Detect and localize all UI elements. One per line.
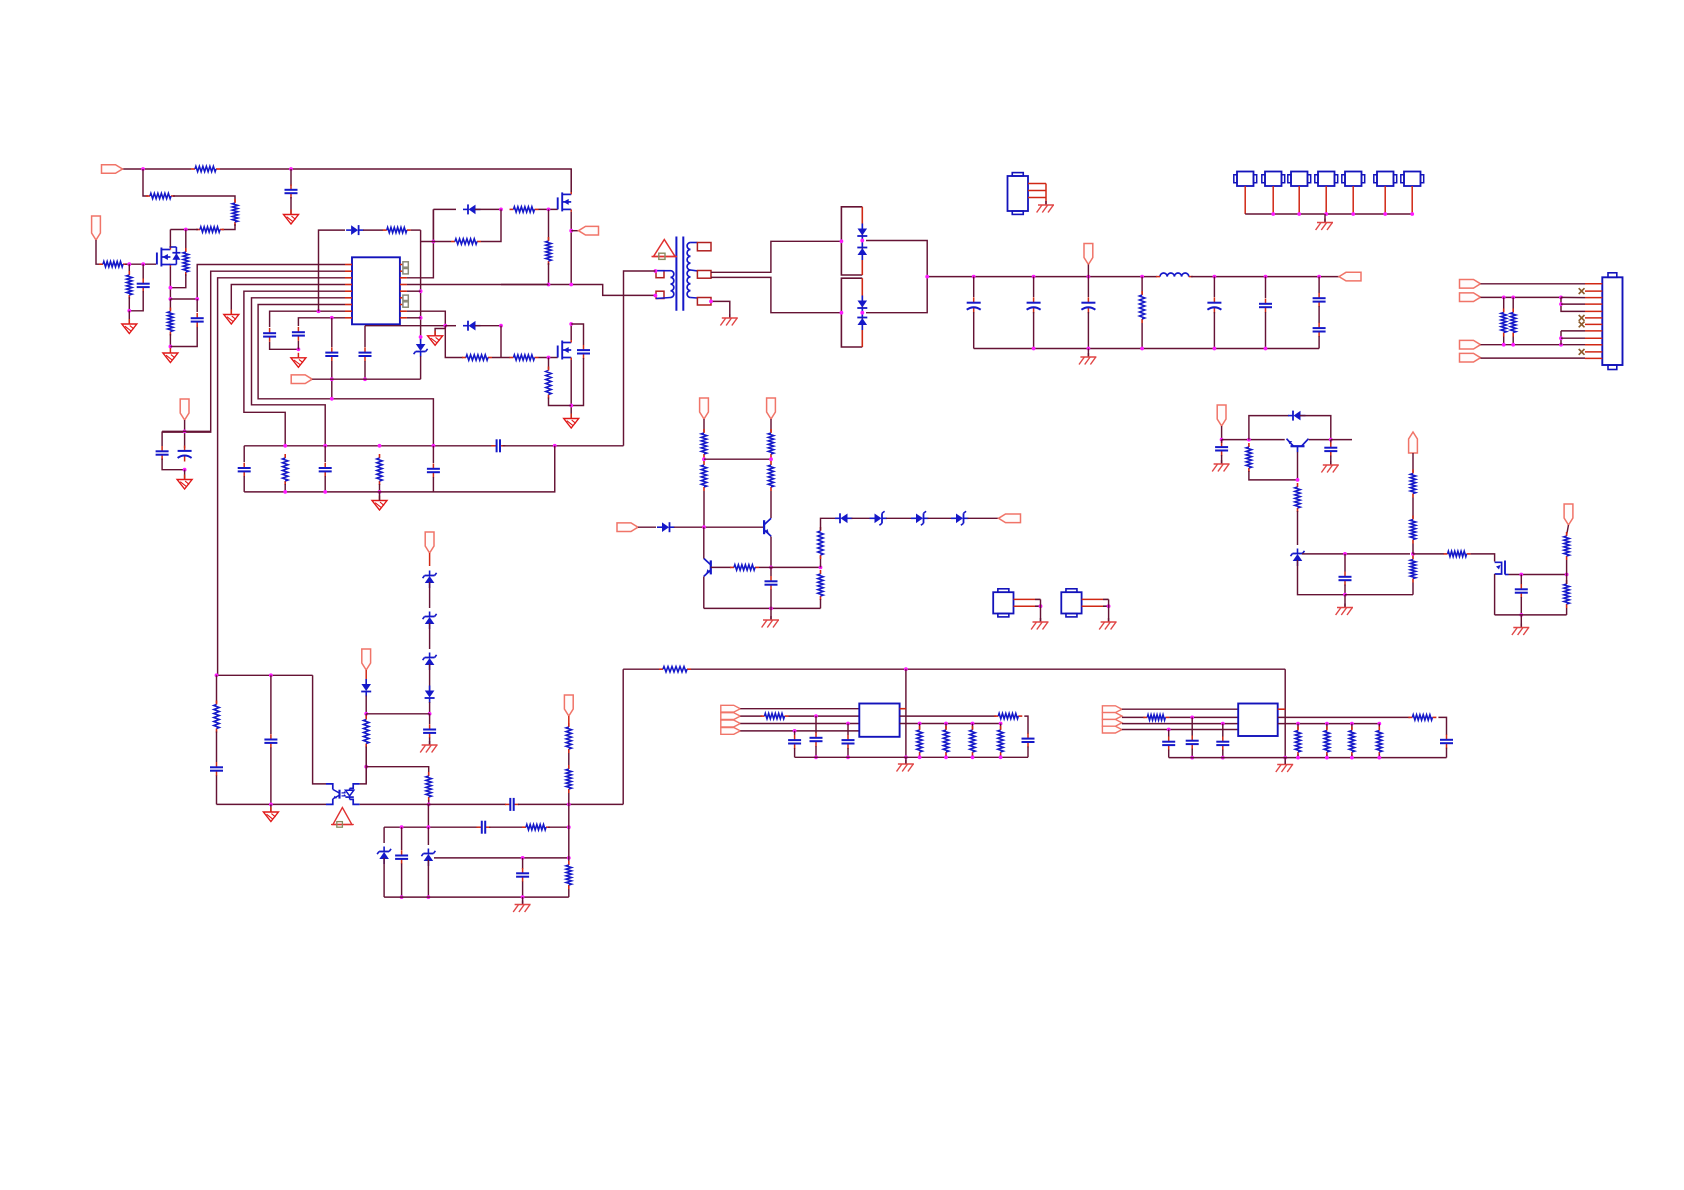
lead P14 xyxy=(568,716,570,726)
wire C16 bot xyxy=(1033,312,1035,349)
wire D2 to J501 xyxy=(475,208,501,210)
inductor T1 primary winding xyxy=(671,271,674,278)
wire R25 to D row xyxy=(821,518,837,530)
pin 3 stub U1 left xyxy=(345,277,352,279)
wire R55 bot xyxy=(1512,337,1514,345)
pin CN7 row6 xyxy=(1585,317,1602,319)
wire R43 down xyxy=(1326,755,1328,758)
wire P4 rail xyxy=(312,378,420,380)
wire D2 row xyxy=(433,208,456,210)
wire U4 row1 xyxy=(1122,708,1238,710)
node junction B-C13 xyxy=(323,490,327,494)
wire D10-D11 xyxy=(928,517,954,519)
wire U3 row2a xyxy=(740,715,762,717)
diode D9 zener xyxy=(870,511,888,525)
wire C16 top xyxy=(1033,277,1035,297)
resistor R29 xyxy=(214,701,219,733)
wire C2 bot xyxy=(129,291,143,311)
chassis ground CG15 xyxy=(420,741,437,753)
capacitor C38 xyxy=(1215,442,1228,456)
node junction D2-R12 xyxy=(499,208,503,212)
node junction row2-C35 xyxy=(1190,716,1194,720)
node junction connbus 6 xyxy=(1410,212,1414,216)
wire R18 top xyxy=(1141,277,1143,294)
wire stair2 xyxy=(1561,330,1585,332)
wire C5 col bot xyxy=(364,361,366,379)
wire D11 to P11 xyxy=(968,517,999,519)
resistor R32 xyxy=(566,765,571,793)
node junction r10-R54 xyxy=(1502,343,1506,347)
node junction m2block xyxy=(432,240,436,244)
diode D5a xyxy=(857,224,867,242)
node junction C31-bot xyxy=(814,755,818,759)
node junction gate M2 xyxy=(547,208,551,212)
wire G10 stub xyxy=(270,804,272,811)
node junction R9-rail xyxy=(547,283,551,287)
capacitor C15 polar xyxy=(967,297,981,313)
wire R45 feed xyxy=(1378,724,1380,730)
node junction Q6 base-R47 xyxy=(1296,478,1300,482)
resistor R34 xyxy=(761,713,789,718)
resistor R10 xyxy=(546,367,551,399)
node junction gnd5 xyxy=(297,347,301,351)
wire pin3 rail xyxy=(218,674,313,676)
resistor R40 xyxy=(1143,715,1169,720)
pin U4 right1 xyxy=(1278,708,1286,710)
wire R29 to C24 xyxy=(216,732,218,763)
chassis ground CG4 xyxy=(1316,219,1333,231)
node junction pin3rail-cap xyxy=(269,673,273,677)
node junction prim top xyxy=(654,269,658,273)
diode D10 zener xyxy=(911,511,929,525)
diode D16 xyxy=(361,679,371,697)
wire vcc column xyxy=(420,230,422,340)
connector J4 xyxy=(1315,172,1338,187)
pin CN7 row2 xyxy=(1585,290,1602,292)
wire U3 row1 xyxy=(740,708,859,710)
capacitor C20 xyxy=(1313,293,1326,307)
node junction C2 xyxy=(141,262,145,266)
node junction A-R16 xyxy=(283,444,287,448)
node junction A-C13 xyxy=(323,444,327,448)
node junction prim bot xyxy=(654,294,658,298)
wire cgnd stub xyxy=(1087,349,1089,357)
node junction R8 xyxy=(127,262,131,266)
wire R24 bot xyxy=(820,599,822,608)
wire Q4e row right xyxy=(771,566,821,568)
resistor R13 xyxy=(451,239,481,244)
wire U1 pin9R xyxy=(407,317,421,319)
connector P16 xyxy=(1409,432,1418,453)
wire D14-D15 xyxy=(429,664,431,691)
node junction R20-R22 xyxy=(769,457,773,461)
resistor R1 xyxy=(191,166,220,171)
wire G9 stub xyxy=(379,492,381,501)
connector P6 xyxy=(1084,244,1093,265)
node junction rail-R2 xyxy=(141,167,145,171)
wire C37 down xyxy=(1446,748,1448,758)
wire Q2 drain xyxy=(570,169,572,192)
wire R32 down xyxy=(568,793,570,804)
node junction row3-C36 xyxy=(1221,722,1225,726)
diode D14 zener xyxy=(423,653,437,671)
resistor R22 xyxy=(768,461,773,491)
wire M3 rail top xyxy=(365,325,445,327)
resistor R52 xyxy=(1564,532,1569,560)
wire fb bottom rail xyxy=(704,607,821,609)
diode D3 zener xyxy=(414,339,428,357)
node junction 897-C29 xyxy=(521,895,525,899)
ground G3 xyxy=(163,348,178,363)
resistor R15 xyxy=(510,355,539,360)
resistor R4 xyxy=(196,227,224,232)
transistor Q1 mosfet xyxy=(157,247,181,267)
node junction Q3 src rail xyxy=(569,404,573,408)
ic U2 optocoupler xyxy=(326,784,360,805)
wire R54 col xyxy=(1503,297,1505,311)
wire m3 R row left xyxy=(445,329,463,358)
wire U1 pin4 xyxy=(231,285,345,315)
diode D1 vcc xyxy=(346,225,364,235)
wire CN5 gnd col xyxy=(1040,599,1042,621)
node junction B-R16 xyxy=(283,490,287,494)
wire R50 down xyxy=(1412,583,1414,595)
wire row12 xyxy=(1481,357,1586,359)
node junction Q2src-rail xyxy=(569,283,573,287)
node junction DP1 in xyxy=(840,239,844,243)
resistor R39 xyxy=(998,726,1003,756)
wire R44 feed xyxy=(1351,724,1353,730)
wire CG6 stub xyxy=(522,897,524,904)
node junction 554-Rcol xyxy=(1411,552,1415,556)
resistor R28 xyxy=(426,772,431,801)
node junction bus g xyxy=(1317,275,1321,279)
wire U1 pin8 xyxy=(270,311,345,327)
connector P9 xyxy=(767,398,776,419)
resistor R41 xyxy=(1408,715,1436,720)
capacitor C39 xyxy=(1324,442,1337,456)
node junction C4-term rail xyxy=(330,377,334,381)
resistor R27 xyxy=(364,716,369,748)
pin J4 wire xyxy=(1325,186,1327,214)
wire DP2 out xyxy=(866,277,927,313)
connector P1 input xyxy=(102,165,123,174)
capacitor C14 xyxy=(427,464,440,478)
wire P6 stub xyxy=(1087,265,1089,277)
wire U3 row2R xyxy=(900,715,996,717)
wire C40 down xyxy=(1344,585,1346,595)
wire U1 pin2 xyxy=(162,271,345,432)
wire cap3 bottom rail xyxy=(170,325,197,347)
node junction R45 top xyxy=(1377,722,1381,726)
capacitor C18 polar xyxy=(1207,297,1221,313)
connector P15 xyxy=(1217,405,1226,426)
connector J5 xyxy=(1342,172,1365,187)
wire R8 bot xyxy=(128,297,130,311)
wire C22 top xyxy=(770,567,772,576)
wire R17 bot xyxy=(379,484,381,492)
capacitor C34 xyxy=(1162,736,1175,750)
wire C36 col xyxy=(1222,724,1224,737)
wire z1 col xyxy=(383,827,385,843)
wire C30 col xyxy=(794,731,796,735)
wire U1 pin9 xyxy=(298,318,345,326)
pin 12 stub U1 right xyxy=(400,277,407,279)
wire U4 row2b xyxy=(1169,716,1238,718)
wire Q5 emitter xyxy=(703,577,705,609)
wire C36 down xyxy=(1222,750,1224,758)
wire rail554 to R51 xyxy=(1413,553,1444,555)
connector CN7 body xyxy=(1602,277,1622,365)
node junction gnd rail xyxy=(127,309,131,313)
resistor R18 xyxy=(1139,291,1144,323)
node junction R43 top xyxy=(1325,722,1329,726)
wire C17 bot xyxy=(1087,312,1089,349)
wire Q2 source xyxy=(570,212,572,285)
wire to G2 xyxy=(128,311,130,324)
node junction busgnd b2 xyxy=(1032,347,1036,351)
wire U4 row3 xyxy=(1122,723,1238,725)
node junction row4-C34 xyxy=(1167,728,1171,732)
node junction D4-x501 xyxy=(499,324,503,328)
wire R7 top xyxy=(169,299,171,311)
resistor R45 xyxy=(1377,727,1382,757)
chassis ground CG3 xyxy=(1037,201,1054,213)
node junction vcc-5R xyxy=(419,289,423,293)
wire Q1 source xyxy=(169,267,171,299)
node junction A-R17 xyxy=(378,444,382,448)
node junction Q6 base col xyxy=(1247,438,1251,442)
connector P17 xyxy=(1564,504,1573,525)
wire bus bottom rail xyxy=(974,348,1319,350)
wire R20 bot xyxy=(770,458,772,459)
wire rail284 left xyxy=(501,284,549,286)
wire C12 bot xyxy=(243,476,245,492)
resistor R43 xyxy=(1324,727,1329,757)
wire D1 to R11 xyxy=(363,229,383,231)
chassis ground CG12 xyxy=(1321,461,1338,473)
wire rail 714 xyxy=(366,713,429,715)
capacitor C8 xyxy=(577,345,590,359)
connector J3 xyxy=(1288,172,1311,187)
inductor L1 leads xyxy=(1156,276,1160,278)
capacitor C37 xyxy=(1440,735,1453,749)
wire C38 down xyxy=(1221,455,1223,464)
wire R27 to opto xyxy=(365,747,367,784)
node junction R44 bot xyxy=(1350,756,1354,760)
wire Q3 drain xyxy=(570,324,572,340)
diode D18 zener xyxy=(421,849,435,867)
transistor Q2 mosfet xyxy=(558,192,572,212)
resistor R53 xyxy=(1564,580,1569,608)
capacitor C9 xyxy=(156,446,169,460)
node junction pin1-source xyxy=(195,297,199,301)
node junction R36 bot xyxy=(918,755,922,759)
node junction R36 top xyxy=(918,722,922,726)
wire R42 feed xyxy=(1297,724,1299,730)
resistor R14 xyxy=(462,355,492,360)
node junction connbus 4 xyxy=(1351,212,1355,216)
wire C34 col xyxy=(1168,730,1170,738)
resistor R2 xyxy=(146,193,175,198)
node junction Q7s-R53 xyxy=(1565,573,1569,577)
pin 4 stub U1 left xyxy=(345,284,352,286)
wire C9 col xyxy=(161,431,163,446)
pin J3 wire xyxy=(1298,186,1300,214)
wire D15 to junction xyxy=(429,702,431,714)
node junction D16-rail xyxy=(364,712,368,716)
wire R6 to gate xyxy=(125,263,156,265)
node junction Q7s-C41 xyxy=(1519,573,1523,577)
wire C31 col xyxy=(815,716,817,733)
diode pack DP1 rail xyxy=(861,207,863,275)
ground G7 xyxy=(564,414,579,429)
resistor R50 xyxy=(1410,556,1415,583)
wire Q6c right xyxy=(1331,439,1352,441)
wire C7 bot xyxy=(297,341,299,349)
node junction bus f xyxy=(1264,275,1268,279)
wire C32 col xyxy=(847,724,849,736)
node junction connbus 1 xyxy=(1271,212,1275,216)
node junction 8R-m3rail xyxy=(443,324,447,328)
capacitor C31 xyxy=(810,733,823,747)
symbol warning triangle xyxy=(654,240,676,257)
node junction DP2 in xyxy=(840,311,844,315)
node junction B-R17 xyxy=(378,490,382,494)
resistor R11 xyxy=(383,227,411,232)
wire rail A2 xyxy=(503,445,624,447)
wire R48-R49 xyxy=(1412,498,1414,519)
symbol warning triangle 2 xyxy=(333,808,352,825)
node junction C40 bot xyxy=(1343,593,1347,597)
capacitor C32 xyxy=(842,735,855,749)
wire R2 branch xyxy=(143,169,148,196)
pin 6 stub U1 left xyxy=(345,297,352,299)
wire R10 bot xyxy=(549,398,572,406)
capacitor C1 xyxy=(285,185,298,199)
node junction R37 top xyxy=(944,722,948,726)
chassis ground CG8 xyxy=(1276,761,1293,773)
node junction 827-C27 xyxy=(400,825,404,829)
wire U1 pin5 xyxy=(244,291,345,446)
chassis ground CG1 xyxy=(720,314,737,326)
wire R3 to R4 row xyxy=(222,224,235,230)
wire R36 feed xyxy=(919,724,921,730)
resistor R37 xyxy=(943,726,948,756)
wire R14 to R15 xyxy=(492,357,510,359)
wire C25 top xyxy=(270,675,272,734)
node junction Q6c xyxy=(1329,438,1333,442)
pin 13 stub U1 right xyxy=(400,284,407,286)
wire R2 to R3 xyxy=(173,196,235,202)
pin 9 stub U1 left xyxy=(345,317,352,319)
node junction bus e xyxy=(1213,275,1217,279)
wire R39 down xyxy=(1000,755,1002,757)
wire R51 to gate xyxy=(1471,554,1495,562)
inductor L1 xyxy=(1160,273,1189,277)
wire R12 to gate xyxy=(539,208,558,210)
wire R54 bot xyxy=(1503,337,1505,345)
capacitor C36 xyxy=(1216,736,1229,750)
node junction stair2-row9 xyxy=(1559,336,1563,340)
connector P18 xyxy=(1460,280,1481,289)
wire CG8 stub xyxy=(1284,758,1286,764)
wire C15 bot xyxy=(973,312,975,349)
wire C5 col top xyxy=(364,326,366,347)
wire C35 col xyxy=(1191,717,1193,736)
node junction R43 bot xyxy=(1325,756,1329,760)
wire DP1 out xyxy=(866,241,927,277)
capacitor C13 xyxy=(319,463,332,477)
wire opto cathode rail xyxy=(217,803,327,805)
wire q7 bottom rail xyxy=(1495,614,1567,616)
node junction R5 top xyxy=(184,228,188,232)
pin T1 sec top box xyxy=(690,242,697,244)
capacitor C40 xyxy=(1339,572,1352,586)
wire R53 down xyxy=(1566,608,1568,615)
resistor R20 xyxy=(768,429,773,458)
wire opto fb rail right xyxy=(366,767,429,775)
wire R38 feed xyxy=(972,724,974,730)
wire z2 col xyxy=(427,827,429,845)
pin T1 sec mid box xyxy=(690,269,697,272)
wire m3rail to D4 xyxy=(445,325,456,327)
node junction bus a xyxy=(972,275,976,279)
node junction r10-stair xyxy=(1559,343,1563,347)
diode pack DP2 outline xyxy=(841,278,862,347)
capacitor C23 xyxy=(423,724,436,738)
wire C20 mid xyxy=(1318,306,1320,323)
wire C30 down xyxy=(794,748,796,757)
resistor R17 xyxy=(377,454,382,485)
node junction rail-C1 xyxy=(289,167,293,171)
node junction opto fb xyxy=(364,765,368,769)
pin CN7 row12 xyxy=(1585,357,1602,359)
connector P3 xyxy=(180,399,189,420)
wire C4 col bot xyxy=(331,361,333,399)
wire D4 to x501 xyxy=(475,325,501,327)
wire row3 xyxy=(1481,296,1562,298)
wire R43 feed xyxy=(1326,724,1328,730)
resistor R30 xyxy=(522,825,550,830)
wire R33 down xyxy=(568,889,570,897)
chassis ground CG7 xyxy=(897,760,914,772)
wire D20 down xyxy=(1298,560,1346,595)
node junction Q2 source-term xyxy=(569,229,573,233)
wire stair1 xyxy=(1561,297,1585,311)
node junction R42 top xyxy=(1296,722,1300,726)
wire R49 down xyxy=(1412,544,1414,554)
capacitor C27 xyxy=(395,850,408,864)
resistor R6 xyxy=(99,262,127,267)
wire em rail right xyxy=(518,803,623,805)
wire rail459 xyxy=(704,458,771,460)
ground G4 pin4 xyxy=(224,310,239,325)
wire to G8 xyxy=(184,470,186,479)
wire R45 down xyxy=(1378,755,1380,758)
connector P5 output xyxy=(1339,272,1361,281)
node junction R42 bot xyxy=(1296,756,1300,760)
pin CN7 row7 xyxy=(1585,323,1602,325)
node junction bus b xyxy=(1032,275,1036,279)
pin J5 wire xyxy=(1352,186,1354,214)
wire R13 to x501 xyxy=(481,209,501,241)
pin CN7 row10 xyxy=(1585,344,1602,346)
node junction A2-B xyxy=(553,444,557,448)
pin 1 stub U1 left xyxy=(345,264,352,266)
wire rail554 xyxy=(1302,553,1410,555)
wire long rail 669b xyxy=(691,668,1285,670)
